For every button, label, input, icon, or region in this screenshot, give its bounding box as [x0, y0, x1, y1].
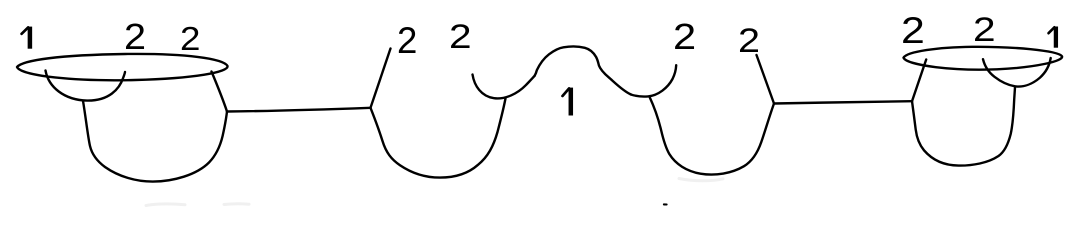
- label 2 right-a: [901, 13, 925, 50]
- label 1 right (drawn): [1054, 27, 1058, 48]
- faint smudge c: [679, 179, 723, 181]
- label 2 left-a: [124, 19, 146, 56]
- left inner cup arc: [46, 71, 126, 101]
- stem up to label 2 (left middle): [371, 49, 391, 108]
- well U2: [650, 97, 774, 174]
- hook arc left: [473, 75, 535, 99]
- label 2 left-b: [180, 23, 200, 56]
- hook arc right: [631, 65, 676, 96]
- right pot bowl: [912, 87, 1015, 165]
- central hill: [535, 47, 631, 95]
- left ellipse: [17, 54, 228, 80]
- small dash bottom: [664, 203, 667, 205]
- well U1: [371, 98, 506, 177]
- wire right horizontal: [774, 101, 912, 103]
- label 2 mid-right-b: [738, 24, 760, 58]
- label 1 left (drawn): [28, 27, 33, 49]
- label 2 mid-left-a: [397, 23, 417, 60]
- right pot left wall: [912, 60, 926, 102]
- right inner bowl arc: [983, 58, 1051, 87]
- left pot bowl: [83, 101, 227, 182]
- stem up to label 2 (right middle): [757, 55, 775, 104]
- left pot right wall: [212, 72, 228, 112]
- faint smudge a: [146, 204, 185, 205]
- label 2 right-b: [973, 13, 996, 47]
- label 2 mid-left-b: [449, 20, 472, 54]
- wire left horizontal: [227, 108, 371, 112]
- right ellipse: [904, 47, 1063, 70]
- label 2 mid-right-a: [673, 19, 696, 55]
- faint smudge b: [224, 202, 249, 206]
- label 1 center (drawn): [569, 88, 574, 116]
